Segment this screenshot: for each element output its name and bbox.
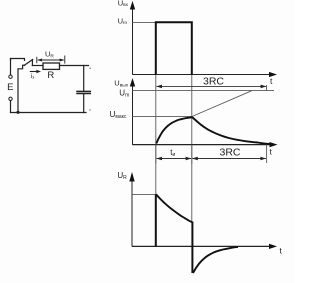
thin level line at initial UR — [132, 193, 156, 195]
tu dimension arrow — [157, 158, 191, 160]
output terminal mark upper — [90, 68, 91, 69]
terminal circle upper of E — [9, 75, 12, 78]
UR decay during pulse — [156, 194, 192, 222]
input pulse waveform — [156, 22, 192, 75]
tick at right end of 3RC arrow — [266, 85, 268, 91]
x axis t (bottom) — [132, 245, 271, 247]
capacitor C plates — [77, 90, 90, 92]
switch right fixed contact tick — [31, 60, 33, 66]
svg-text:iз: iз — [31, 73, 35, 80]
capacitor C top lead — [83, 66, 85, 92]
svg-text:E: E — [7, 82, 13, 93]
junction dot at switch pivot on bottom rail — [16, 111, 19, 114]
label UR measurement ticks — [37, 56, 65, 64]
current arrow i3 — [30, 71, 38, 73]
y axis UR — [131, 181, 133, 247]
resistor R body — [43, 63, 60, 69]
wire: bottom rail — [11, 112, 87, 114]
y axis Uvx — [132, 8, 134, 75]
output charge curve (rise) — [156, 117, 192, 143]
thin Umax level line — [133, 115, 193, 117]
3RC dimension arrow (top) — [157, 85, 266, 87]
wire: top input wire to switch fixed contact — [11, 59, 25, 61]
UR negative jump at t=tu — [191, 222, 193, 274]
output discharge curve (decay) — [192, 117, 270, 144]
switch S blade — [24, 60, 32, 66]
vertical guide at pulse start t=0 — [155, 75, 157, 247]
x axis t (top) — [133, 74, 271, 76]
svg-text:R: R — [47, 70, 54, 81]
terminal circle lower of E — [9, 97, 12, 100]
wire: top rail from switch to resistor — [32, 65, 43, 67]
vertical guide at pulse end t=tu — [191, 75, 193, 222]
thin Um level line — [133, 21, 156, 23]
svg-text:3RC: 3RC — [220, 146, 241, 158]
UR jump at t=0 — [155, 194, 157, 246]
UR arrow heads — [37, 59, 42, 62]
capacitor C bottom lead — [83, 94, 85, 113]
thin tangent line from curve peak to Um level — [192, 91, 252, 117]
UR negative recovery curve — [193, 247, 238, 273]
tick below axis at 3RC end — [266, 145, 268, 163]
wire: E source left branch upper — [10, 59, 12, 76]
y axis Uvyx — [132, 85, 134, 145]
wire: switch pivot to bottom rail — [18, 65, 25, 112]
tick below axis at t=tu — [191, 145, 193, 164]
3RC dimension arrow (middle) — [192, 158, 265, 160]
output terminal mark lower — [89, 109, 90, 110]
thin Um level line (middle) — [133, 89, 275, 91]
svg-text:3RC: 3RC — [203, 76, 224, 88]
x axis t (middle) — [133, 144, 272, 146]
tick below axis at t=0 — [155, 145, 157, 164]
wire: resistor to output node — [60, 65, 89, 67]
wire: E source left branch lower — [10, 101, 12, 113]
